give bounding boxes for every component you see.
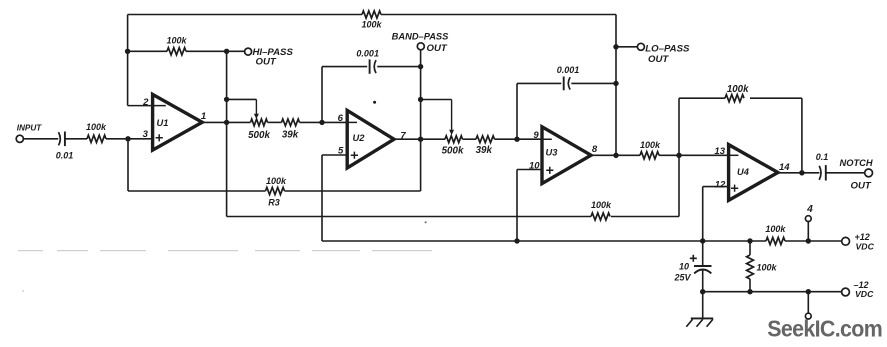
label U3	[546, 147, 559, 157]
pin 7 label U2 output	[400, 131, 406, 142]
svg-text:4: 4	[806, 204, 813, 215]
wire U4 feedback top	[679, 97, 802, 99]
pin 4 label	[806, 204, 813, 215]
wire pot1 wiper branch	[227, 98, 257, 100]
pin 8 label U3 output	[592, 144, 598, 155]
capacitor 0.1 notch output	[819, 165, 826, 180]
svg-text:100k: 100k	[86, 122, 107, 132]
pin 13 label U4	[714, 146, 725, 157]
svg-text:U2: U2	[353, 133, 366, 143]
label NOTCH OUT	[851, 180, 872, 191]
op-amp U2	[347, 110, 394, 168]
pin 6 label U2	[338, 113, 344, 124]
label 0.1	[816, 152, 829, 162]
node bias line pin10 junction	[514, 238, 519, 243]
terminal NOTCH OUT	[865, 169, 873, 177]
wire U1 pin 2 input with minus stub	[128, 105, 166, 107]
resistor 100k HP summing	[591, 213, 610, 220]
stray dot artifact	[373, 101, 376, 104]
wire HP summing row	[227, 216, 679, 218]
capacitor 0.01 input coupling	[59, 132, 65, 147]
svg-text:1: 1	[201, 111, 206, 122]
resistor 100k U3 to U4	[640, 152, 659, 159]
node BP cap junction	[418, 64, 423, 69]
label 0.01	[56, 151, 74, 161]
label U2	[353, 133, 366, 143]
label 100k top feedback	[361, 20, 382, 30]
label 100k U1 feedback	[166, 36, 187, 46]
label 0.001 U3	[557, 65, 580, 75]
node U3 output junction	[613, 153, 618, 158]
resistor 39k second	[476, 136, 494, 143]
svg-text:13: 13	[714, 146, 725, 157]
wire HI-PASS vertical bus	[226, 51, 228, 216]
pin 5 label U2	[338, 146, 344, 157]
resistor 100k U1 feedback	[167, 48, 186, 55]
wire top feedback from U3 output node to U1 pin 2 node	[128, 14, 616, 16]
svg-text:100k: 100k	[757, 263, 778, 273]
svg-text:500k: 500k	[248, 130, 270, 141]
wire U4 feedback right vertical	[801, 98, 803, 173]
resistor 39k first	[282, 119, 300, 126]
svg-text:SeekIC.com: SeekIC.com	[767, 316, 882, 342]
wire pot2 wiper branch	[421, 99, 452, 101]
node bias divider top junction	[747, 238, 752, 243]
svg-text:U3: U3	[546, 147, 559, 157]
wire U3 output row	[591, 154, 729, 156]
terminal +12 VDC	[842, 237, 850, 245]
wire -12 bottom drop	[807, 292, 809, 314]
ground	[686, 318, 713, 326]
svg-text:OUT: OUT	[256, 57, 277, 68]
node LO-PASS junction	[613, 44, 618, 49]
node U4 output junction	[799, 170, 804, 175]
wire U4 pin12 vertical	[702, 187, 704, 266]
label BAND-PASS OUT	[427, 43, 448, 54]
wire U1 output row	[202, 121, 347, 123]
wire U2 pin 6 minus stub	[347, 121, 357, 123]
pin 9 label U3	[533, 130, 539, 141]
svg-text:VDC: VDC	[856, 242, 875, 252]
wire U2 cap left vertical	[321, 67, 323, 123]
svg-text:6: 6	[338, 113, 344, 124]
label 100k U3 to U4	[640, 140, 661, 150]
svg-text:100k: 100k	[166, 36, 187, 46]
pin 14 label U4 output	[779, 162, 790, 173]
node U1 pin2 feedback junction	[125, 49, 130, 54]
label LO-PASS	[645, 43, 690, 54]
terminal INPUT	[16, 135, 23, 142]
wire U2 cap top	[322, 66, 421, 68]
pin 10 label U3	[529, 160, 540, 171]
wire U3 cap left vertical	[516, 83, 518, 139]
svg-text:100k: 100k	[361, 20, 382, 30]
label +12 VDC	[856, 242, 875, 252]
node HI-PASS junction	[224, 49, 229, 54]
svg-text:2: 2	[142, 97, 149, 108]
label 39k first	[282, 129, 299, 140]
label HI-PASS OUT	[256, 57, 277, 68]
terminal bottom open	[805, 313, 811, 319]
label 100k R3	[266, 176, 287, 186]
wire vertical U1 pin2 branch	[127, 15, 129, 106]
svg-text:VDC: VDC	[855, 289, 874, 299]
wire electrolytic to ground	[702, 270, 704, 319]
wire U4 pin 12 input	[703, 186, 729, 188]
capacitor 10uF 25V electrolytic	[694, 266, 712, 273]
wire U4 pin 13 minus stub	[729, 154, 739, 156]
label 500k second	[442, 146, 464, 157]
svg-text:U4: U4	[737, 167, 750, 177]
node U4 summing junction	[676, 153, 681, 158]
wire to LO-PASS terminal	[616, 46, 637, 48]
label 39k second	[476, 145, 493, 156]
wire resistor to U1 pin3	[106, 138, 153, 140]
watermark SeekIC.com	[767, 316, 882, 342]
wire LO-PASS vertical bus	[615, 15, 617, 156]
svg-text:10: 10	[679, 262, 689, 272]
capacitor 0.001 U3 integrator	[564, 77, 570, 91]
wire input to cap	[23, 138, 58, 140]
svg-text:39k: 39k	[476, 145, 493, 156]
label HI-PASS	[253, 47, 294, 58]
plus sign U1 noninverting	[156, 134, 163, 141]
node U2 output junction	[418, 137, 423, 142]
op-amp U3	[542, 127, 591, 184]
pin 3 label U1	[143, 129, 149, 140]
plus sign U3 noninverting	[546, 167, 553, 174]
label 100k U4 feedback	[727, 84, 749, 95]
potentiometer 500k second	[445, 136, 463, 143]
svg-text:100k: 100k	[640, 140, 661, 150]
label 10	[679, 262, 689, 272]
resistor 100k top feedback	[362, 11, 381, 18]
svg-text:BAND–PASS: BAND–PASS	[392, 31, 449, 41]
wire U1 feedback row	[128, 50, 227, 52]
svg-text:INPUT: INPUT	[17, 124, 43, 133]
wire divider leads	[749, 241, 751, 292]
svg-text:100k: 100k	[727, 84, 749, 95]
svg-text:39k: 39k	[282, 129, 299, 140]
svg-text:100k: 100k	[266, 176, 287, 186]
svg-text:8: 8	[592, 144, 598, 155]
svg-text:OUT: OUT	[851, 180, 872, 191]
svg-text:LO–PASS: LO–PASS	[645, 43, 690, 54]
wire U2 pin 5 input	[322, 154, 347, 156]
node wiper branch junction	[224, 97, 229, 102]
svg-text:25V: 25V	[673, 272, 691, 282]
svg-text:OUT: OUT	[427, 43, 448, 54]
wire to HI-PASS terminal	[227, 50, 245, 52]
svg-text:3: 3	[143, 129, 149, 140]
wire -12 row	[703, 291, 842, 293]
node U3 cap junction	[613, 81, 618, 86]
node pin4 junction	[806, 238, 811, 243]
wire bias bus row	[322, 240, 842, 242]
svg-text:500k: 500k	[442, 146, 464, 157]
wire U2 output row	[394, 138, 542, 140]
label -12 VDC	[855, 289, 874, 299]
resistor 100k divider	[747, 255, 754, 279]
label NOTCH	[840, 158, 873, 168]
svg-text:NOTCH: NOTCH	[840, 158, 873, 168]
plus sign U2 noninverting	[351, 152, 358, 159]
pin 2 label U1	[142, 97, 149, 108]
wire U4 output row	[778, 172, 820, 174]
label -12	[854, 280, 869, 290]
label 100k to +12	[765, 224, 786, 234]
pin 1 label U1 output	[201, 111, 206, 122]
resistor 100k U4 feedback	[725, 95, 744, 102]
svg-text:9: 9	[533, 130, 539, 141]
svg-text:5: 5	[338, 146, 344, 157]
svg-text:0.001: 0.001	[356, 48, 379, 58]
svg-text:14: 14	[779, 162, 790, 173]
potentiometer wiper arrow 2	[449, 100, 454, 136]
op-amp U1	[153, 94, 203, 150]
wire U3 cap top	[517, 82, 616, 84]
node U3 pin9 junction	[514, 137, 519, 142]
label 100k divider	[757, 263, 778, 273]
wire U3 pin 9 minus stub	[517, 138, 552, 140]
svg-text:OUT: OUT	[648, 54, 669, 65]
potentiometer wiper arrow 1	[254, 99, 259, 119]
capacitor 0.001 U2 integrator	[370, 59, 376, 73]
wire U2 pin5 vertical	[321, 155, 323, 241]
svg-text:U1: U1	[157, 118, 169, 128]
svg-text:R3: R3	[268, 197, 280, 207]
label 0.001 U2	[356, 48, 379, 58]
wire U4 summing vertical	[678, 98, 680, 216]
wire U3 pin10 vertical	[516, 170, 518, 242]
label LO-PASS OUT	[648, 54, 669, 65]
wire R3 row	[128, 139, 421, 191]
svg-text:12: 12	[715, 179, 726, 190]
node bias pin12 junction	[700, 238, 705, 243]
op-amp U4	[729, 145, 778, 201]
node U2 pin6 junction	[319, 120, 324, 125]
label 500k first	[248, 130, 270, 141]
terminal -12 VDC	[842, 288, 850, 296]
svg-text:0.1: 0.1	[816, 152, 829, 162]
label 100k HP summing	[591, 200, 612, 210]
label BAND-PASS	[392, 31, 449, 41]
wire pin4 drop	[807, 222, 809, 242]
terminal BAND-PASS OUT	[417, 43, 424, 50]
terminal pin 4	[805, 216, 811, 222]
label +12	[855, 232, 870, 242]
resistor 100k R3	[266, 187, 285, 194]
terminal LO-PASS OUT	[637, 43, 644, 50]
svg-text:100k: 100k	[765, 224, 786, 234]
node U1 output junction	[224, 120, 229, 125]
wire BAND-PASS vertical bus	[420, 50, 422, 191]
pin 12 label U4	[715, 179, 726, 190]
node BP wiper junction	[418, 97, 423, 102]
scan artifact faint dashes	[18, 221, 432, 292]
svg-text:+12: +12	[855, 232, 870, 242]
label R3	[268, 197, 280, 207]
node input summing junction	[125, 136, 130, 141]
plus sign electrolytic	[690, 255, 697, 262]
wire cap to resistor	[65, 138, 87, 140]
plus sign U4 noninverting	[731, 185, 738, 192]
resistor 100k input	[87, 135, 106, 142]
label INPUT	[17, 124, 43, 133]
node -12 row junction	[700, 289, 705, 294]
label U4	[737, 167, 750, 177]
node -12 drop junction	[806, 289, 811, 294]
resistor 100k to +12	[766, 237, 785, 244]
svg-text:100k: 100k	[591, 200, 612, 210]
label U1	[157, 118, 169, 128]
potentiometer 500k first	[251, 119, 268, 126]
svg-text:0.001: 0.001	[557, 65, 580, 75]
wire U3 pin 10 input	[517, 169, 542, 171]
node divider bottom junction	[747, 289, 752, 294]
svg-text:10: 10	[529, 160, 540, 171]
label 25V	[673, 272, 691, 282]
label 100k input	[86, 122, 107, 132]
terminal HI-PASS OUT	[245, 48, 252, 55]
svg-text:0.01: 0.01	[56, 151, 74, 161]
wire cap to NOTCH terminal	[826, 172, 865, 174]
